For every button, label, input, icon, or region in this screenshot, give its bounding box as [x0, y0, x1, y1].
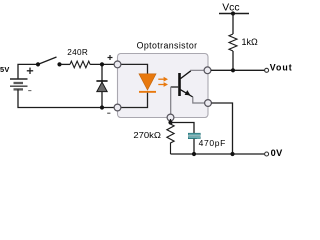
phototransistor emitter lead with arrow [181, 90, 193, 97]
wire diode branch [101, 64, 103, 107]
label minus at LED cathode pin [107, 112, 110, 114]
battery plus sign [27, 68, 33, 74]
pin base [167, 114, 174, 121]
terminal 0V [265, 152, 269, 156]
svg-text:470pF: 470pF [199, 138, 226, 148]
pin collector [204, 67, 211, 74]
node Vcc junction [231, 11, 235, 15]
node base junction [168, 120, 172, 124]
wire emitter to ground rail [212, 103, 233, 154]
svg-text:Vout: Vout [270, 63, 293, 73]
ground rail 0V [171, 153, 265, 155]
switch pole node [36, 62, 40, 66]
svg-text:Optotransistor: Optotransistor [137, 40, 198, 50]
LED internal (emitter diode) [139, 74, 156, 90]
node diode bottom junction [100, 105, 104, 109]
svg-text:Vcc: Vcc [222, 2, 239, 13]
wire resistor to LED anode pin [90, 63, 114, 65]
label 470pF background [197, 139, 228, 149]
resistor 270k [167, 123, 174, 155]
wire capacitor branch top [171, 123, 195, 134]
phototransistor base lead [171, 86, 179, 88]
resistor 240R [70, 61, 90, 68]
light arrow upper [158, 77, 168, 82]
node diode top junction [100, 62, 104, 66]
phototransistor Q1 base bar [178, 73, 181, 96]
battery BT1 5V [10, 79, 28, 89]
pin emitter [205, 100, 212, 107]
node emitter-rail junction [230, 152, 234, 156]
switch throw node [57, 62, 61, 66]
switch SW1 blade [38, 57, 57, 64]
node collector junction [231, 68, 235, 72]
wire capacitor to ground rail [193, 139, 195, 154]
resistor 1k [229, 34, 237, 51]
capacitor 470pF plates [188, 133, 201, 139]
optotransistor body U1 [118, 54, 209, 118]
LED cathode bar [139, 91, 156, 93]
wire switch to resistor [60, 63, 71, 65]
light arrow lower [158, 82, 168, 87]
wire base pin to junction [170, 119, 172, 123]
svg-text:1kΩ: 1kΩ [242, 37, 259, 47]
svg-text:240R: 240R [67, 48, 88, 57]
wire collector to Vout [211, 69, 265, 71]
phototransistor collector lead [181, 71, 191, 79]
label plus at LED anode pin [108, 55, 113, 60]
diode D1 protection [96, 81, 107, 92]
wire emitter to pin internal [193, 97, 205, 103]
wire battery negative bottom run [18, 89, 115, 107]
svg-text:0V: 0V [271, 148, 284, 158]
pin LED cathode [114, 104, 121, 111]
wire base to bottom pin internal [170, 87, 172, 116]
pin LED anode [114, 61, 121, 68]
Vcc rail bar [219, 13, 249, 15]
wire LED anode internal [119, 64, 148, 74]
wire resistor to collector node [232, 51, 234, 70]
wire collector to pin internal [191, 69, 205, 72]
wire LED cathode internal [119, 93, 148, 108]
svg-text:270kΩ: 270kΩ [133, 130, 161, 140]
battery minus sign [28, 90, 31, 92]
terminal Vout [265, 68, 269, 72]
wire battery positive to switch [18, 64, 38, 79]
wire Vcc to resistor [232, 14, 234, 35]
svg-text:5V: 5V [0, 65, 10, 74]
node capacitor-rail junction [192, 152, 196, 156]
